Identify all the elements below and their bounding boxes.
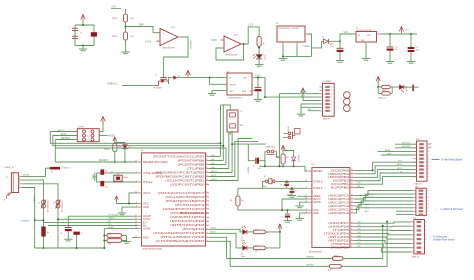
wire divider mid <box>125 22 127 32</box>
net label RESET2 (ICSP) <box>61 138 71 140</box>
svg-text:PWRIN: PWRIN <box>303 46 311 48</box>
filter F2 oval B <box>382 92 391 95</box>
svg-text:1: 1 <box>329 258 330 260</box>
wire PB1 to IOH <box>355 177 417 185</box>
wire +5V to C3 <box>410 34 412 47</box>
svg-text:IO2: IO2 <box>358 239 361 241</box>
svg-text:(PCINT10)PC4: (PCINT10)PC4 <box>175 204 206 207</box>
svg-text:CG0603MLC-05E: CG0603MLC-05E <box>46 201 48 213</box>
net name USBVCC vertical (gate wire) <box>189 40 191 50</box>
wire U3 AVCC <box>129 193 137 204</box>
wire USHIELD <box>21 220 44 222</box>
net label M8RXD <box>307 257 315 259</box>
svg-text:RESET: RESET <box>246 167 248 174</box>
svg-text:LMV358IDGKR: LMV358IDGKR <box>225 54 238 56</box>
svg-text:AD4/SDA: AD4/SDA <box>402 145 411 148</box>
svg-text:5: 5 <box>428 201 429 203</box>
svg-text:1: 1 <box>326 266 327 268</box>
net label GND (IOH) <box>387 153 392 155</box>
svg-text:47u: 47u <box>331 46 334 48</box>
svg-text:XUSB: XUSB <box>23 174 29 176</box>
resonator Y2 <box>80 32 97 36</box>
net label +3V3 (U2 out) <box>255 74 261 77</box>
svg-text:IO0: IO0 <box>358 246 361 248</box>
svg-text:ATMEGA16U2-MU(R): ATMEGA16U2-MU(R) <box>143 248 163 251</box>
wire AD5/SCL to AD <box>355 191 413 196</box>
svg-text:USBVCC: USBVCC <box>189 40 191 50</box>
svg-text:IO7: IO7 <box>358 222 361 224</box>
power +5V symbol (F2) <box>376 77 380 87</box>
node XTAL1-C15 <box>291 187 293 189</box>
wire U5B feedback loop <box>216 44 244 60</box>
IC IC4 ATMEGA328 body <box>309 164 350 253</box>
wire SS to IOH <box>355 173 417 181</box>
svg-text:RN1B: RN1B <box>105 149 111 151</box>
svg-text:Q1: Q1 <box>264 176 266 178</box>
ground (IC4 crystal) <box>288 196 296 198</box>
net label AD1 <box>365 207 370 210</box>
svg-text:USHIELD: USHIELD <box>21 220 31 222</box>
wire RESET2 to U3 <box>55 161 137 163</box>
net label +3V3 (POWER) <box>300 95 306 97</box>
capacitor C16 100n (IC4) <box>281 210 291 218</box>
net label RD+ <box>108 224 113 226</box>
svg-text:XTAL2: XTAL2 <box>143 181 153 184</box>
net label SS (IOH) <box>400 171 403 173</box>
wire C8 to ground <box>67 231 69 239</box>
wire M8RXD to IOL <box>343 226 383 259</box>
svg-text:(INT4/ICP1/CLK0)PC7: (INT4/ICP1/CLK0)PC7 <box>158 192 206 195</box>
wire C16 to ground <box>283 218 291 223</box>
svg-text:C7: C7 <box>296 191 298 193</box>
svg-text:1: 1 <box>426 252 427 254</box>
wire CMP to U5A +input <box>126 27 161 33</box>
svg-text:FDN340P: FDN340P <box>154 88 163 90</box>
svg-text:IO5: IO5 <box>358 229 361 231</box>
net label MISO2 <box>58 130 66 132</box>
svg-text:GND: GND <box>313 212 319 215</box>
resistor R6 1M (xtal) <box>230 196 244 206</box>
svg-text:UGND: UGND <box>33 196 35 202</box>
IC4 left pin stubs and names <box>305 170 323 215</box>
net label AD5/SCL (IOH) <box>402 142 411 145</box>
svg-text:AVCC: AVCC <box>143 192 151 195</box>
wire IO1 to IOL <box>355 244 411 248</box>
capacitor C10 (resonator left upper) <box>69 27 78 30</box>
power +5V symbol (POWER hdr) <box>301 88 305 94</box>
U3 right pins PD0-PD7 <box>153 212 209 243</box>
net label IO7 <box>358 222 361 224</box>
ground (C2) <box>386 62 394 64</box>
AD pin stubs and pads <box>413 190 429 217</box>
svg-text:GND: GND <box>387 153 392 155</box>
node RESET row c <box>293 165 295 167</box>
svg-text:Y2: Y2 <box>80 33 82 35</box>
wire C3 to ground <box>410 52 412 62</box>
svg-text:16: 16 <box>206 167 208 169</box>
wire GND top run <box>381 154 417 156</box>
svg-text:23: 23 <box>351 212 353 214</box>
svg-text:20: 20 <box>305 197 307 199</box>
wire RN1B to RESET2 line <box>114 152 116 163</box>
mounting hole circle 2 <box>344 98 351 105</box>
svg-text:C3: C3 <box>281 217 283 219</box>
wire C5 to RESET node <box>259 161 265 167</box>
net label PB5 (U3) <box>211 163 215 165</box>
svg-text:10: 10 <box>351 232 353 234</box>
svg-text:XTAL2: XTAL2 <box>313 180 323 183</box>
wire UGND row <box>104 227 137 229</box>
wire AD4/SDA to IOH <box>395 147 417 149</box>
svg-text:+5V: +5V <box>405 30 409 32</box>
POWER header pin stubs <box>320 86 332 113</box>
op-amp U5A LMV358 <box>160 27 178 50</box>
capacitor C12 22p (XTAL1) <box>100 169 108 174</box>
svg-text:8: 8 <box>426 222 427 224</box>
wire PB2 turn right <box>235 141 258 176</box>
svg-text:RN4-3: RN4-3 <box>334 255 339 257</box>
svg-text:MISO: MISO <box>397 164 403 166</box>
net label +3V3 (U5A input) <box>145 39 160 43</box>
svg-text:RN4-4: RN4-4 <box>328 270 333 272</box>
ground (RD) <box>122 242 130 244</box>
svg-text:24: 24 <box>351 208 353 210</box>
svg-text:RN4-1: RN4-1 <box>255 246 260 248</box>
net label IO1 <box>358 242 361 244</box>
ground (PC1) <box>336 61 344 63</box>
annotation To Yellow pins of Water Flow sensor <box>429 236 455 242</box>
wire AD3 to AD <box>355 197 413 202</box>
node RESET row a <box>264 165 266 167</box>
wire R6 top to XTAL1 <box>238 188 263 196</box>
net label PWRIN <box>303 46 311 48</box>
svg-text:18: 18 <box>206 159 208 161</box>
svg-text:15: 15 <box>351 183 353 185</box>
wire VIN node to PC1 <box>339 41 341 48</box>
svg-text:M8RXD: M8RXD <box>307 257 315 259</box>
svg-text:(SCLK/PCINT1)PB1: (SCLK/PCINT1)PB1 <box>165 179 205 182</box>
wire ICSP1 pin2 +5V <box>99 122 103 132</box>
svg-text:GND: GND <box>143 206 149 209</box>
wire IO5 to IOL <box>355 229 411 231</box>
svg-text:IO4: IO4 <box>358 232 361 234</box>
U3 left pin stubs and names <box>135 160 168 239</box>
wire jumper to RESET row <box>265 152 280 167</box>
resistor RN4C 1K (M8TXD) <box>326 265 343 272</box>
wire PB4 up to Y1 area <box>228 132 230 169</box>
node +3V3 cap C6 <box>257 77 259 79</box>
svg-text:+3V3: +3V3 <box>145 39 152 43</box>
svg-text:RN1C: RN1C <box>112 18 118 20</box>
svg-text:7: 7 <box>331 107 332 109</box>
svg-text:15: 15 <box>206 171 208 173</box>
crystal Q1 16MHz (IC4) <box>262 176 275 188</box>
svg-text:5: 5 <box>426 235 427 237</box>
svg-text:(OC1A/PCINT8)PC6: (OC1A/PCINT8)PC6 <box>165 196 205 199</box>
net label AD4/SDA <box>365 196 374 199</box>
svg-text:C8: C8 <box>60 233 62 235</box>
wire PB1 turn right <box>238 139 252 181</box>
svg-text:(PDI/MOSI/PCINT2)PB2: (PDI/MOSI/PCINT2)PB2 <box>156 175 206 178</box>
LED L13 yellow <box>253 54 266 60</box>
wire D+ row to U3 <box>48 225 137 227</box>
wire USB VBUS to F1 <box>22 168 50 176</box>
wire U3 XTAL1 <box>104 172 137 174</box>
wire U3 GND <box>122 207 137 213</box>
net label AREF (IC4) <box>287 194 293 197</box>
svg-text:RD2: RD2 <box>108 234 111 236</box>
pushbutton RESET <box>286 127 300 140</box>
svg-text:30: 30 <box>135 221 137 223</box>
LED RX yellow <box>241 242 247 258</box>
svg-text:VIN: VIN <box>344 31 348 34</box>
net label IO9 <box>358 183 361 185</box>
IOH right labels <box>428 144 432 150</box>
pin stub U5A output <box>178 36 181 38</box>
connector POWER header <box>323 81 335 120</box>
svg-text:(PCINT6)PB6: (PCINT6)PB6 <box>178 159 206 162</box>
wire UGND from USB pin4 <box>22 188 35 221</box>
wire U3 PB7 up <box>209 156 221 158</box>
svg-text:LP2985-33DBVR: LP2985-33DBVR <box>228 97 242 99</box>
net label USBVCC (fuse) <box>62 167 72 169</box>
wire +5V rail branch to ON/OFF <box>210 78 226 85</box>
ground (POWER hdr) <box>297 114 305 116</box>
net label SCK2 <box>61 134 68 136</box>
connector IOL <box>412 218 425 259</box>
connector X1 POWERSUPPLY_DC21MMX <box>276 23 305 42</box>
svg-text:(OC0B/INT0)PD0: (OC0B/INT0)PD0 <box>170 212 206 215</box>
svg-text:16MHz: 16MHz <box>123 177 128 179</box>
svg-text:of Water Flow sensor: of Water Flow sensor <box>433 239 455 242</box>
svg-text:2: 2 <box>426 247 427 249</box>
crystal Y2 16MHz (U3) <box>111 172 129 182</box>
svg-text:M8TXD: M8TXD <box>307 264 315 266</box>
wire ICSP1 RESET2 <box>55 139 77 141</box>
connector ICSP1 <box>77 126 99 141</box>
net label MOSI2 (U3) <box>211 179 217 181</box>
wire UVCC row <box>58 218 137 220</box>
svg-text:T1: T1 <box>155 75 157 77</box>
net label SCK (IOH) <box>398 161 403 163</box>
node SCK2 riser <box>222 145 224 147</box>
svg-text:(RXD)PD0: (RXD)PD0 <box>331 246 350 249</box>
svg-text:RESET: RESET <box>287 127 289 132</box>
resistor RN1B 10K <box>105 144 122 152</box>
net label MOSI (IOH) <box>397 168 403 170</box>
svg-text:AD5/SCL: AD5/SCL <box>402 142 411 145</box>
net label CMP <box>138 23 144 27</box>
svg-text:(AIN0/INT1)PD1: (AIN0/INT1)PD1 <box>170 216 206 219</box>
wire F2 loop <box>378 87 392 93</box>
wire MISO to IOH <box>355 166 417 174</box>
IC4 right pins PC group <box>328 194 354 215</box>
capacitor C6 1u <box>249 88 261 93</box>
svg-text:16M: 16M <box>240 125 244 127</box>
wire AGND <box>300 202 308 206</box>
resistor RN4A 1K (RX) <box>247 246 266 253</box>
node C16 <box>287 209 289 211</box>
node UGND bus <box>103 247 105 249</box>
wire T1 drain to +5V rail <box>169 78 226 84</box>
node XTAL2-C14 <box>286 180 288 182</box>
power +5V symbol (RN1B) <box>113 137 117 143</box>
node TXLED +5V <box>279 231 281 233</box>
wire RESET row <box>259 165 305 167</box>
svg-text:IO6: IO6 <box>358 225 361 227</box>
svg-text:C6: C6 <box>249 91 251 93</box>
wire resonator loop <box>75 25 94 46</box>
node M8RXD-IOL <box>382 225 384 227</box>
svg-text:12: 12 <box>206 183 208 185</box>
svg-text:F1: F1 <box>51 172 53 174</box>
svg-text:C9: C9 <box>81 233 83 235</box>
wire PB0 stub <box>355 186 365 188</box>
svg-text:(AIN2/PCINT11)PC2: (AIN2/PCINT11)PC2 <box>163 208 206 211</box>
wire ICSP1 MISO2 <box>50 131 77 133</box>
svg-text:GND: GND <box>229 91 234 93</box>
svg-text:MA07-1R: MA07-1R <box>323 118 331 121</box>
resistor RD+ 22R <box>104 239 121 246</box>
wire MOSI to IOH <box>355 169 417 177</box>
net name RESET vertical text <box>246 167 248 174</box>
ground (U2) <box>208 94 216 96</box>
wire LED13 to ground <box>258 59 260 64</box>
node MISO2 riser <box>220 142 222 144</box>
net label PB4 (U3) <box>211 167 215 169</box>
wire U3 PB1 <box>209 180 238 182</box>
node RESET row b <box>282 165 284 167</box>
wire UCAP row <box>68 215 137 217</box>
pin bar (D3 output) <box>412 85 418 91</box>
svg-text:7: 7 <box>426 226 427 228</box>
wire button to reset net <box>284 134 286 138</box>
svg-text:L13: L13 <box>249 23 254 27</box>
ground (U3 GND) <box>118 213 126 215</box>
svg-text:Y1: Y1 <box>240 111 242 113</box>
filter F2 oval A <box>382 85 391 88</box>
net label MISO (IOH) <box>397 164 403 166</box>
svg-text:31: 31 <box>135 218 137 220</box>
IC4 right pins PB group <box>328 169 354 190</box>
wire ICSP1 pin4 MOSI2 <box>99 135 107 137</box>
net label L13 <box>249 23 254 27</box>
capacitor C14 22p <box>280 181 289 188</box>
svg-text:6: 6 <box>426 230 427 232</box>
svg-text:CMP: CMP <box>138 23 144 27</box>
wire IO4 to IOL <box>355 234 411 235</box>
wire D2 top <box>283 151 294 154</box>
svg-text:27: 27 <box>351 198 353 200</box>
svg-text:10: 10 <box>206 228 208 230</box>
svg-text:+5V: +5V <box>111 5 116 9</box>
svg-text:To Yellow pins: To Yellow pins <box>433 236 448 238</box>
node F2 <box>377 86 379 88</box>
wire TX RX to +5V <box>265 229 280 248</box>
varistor Z1 <box>39 200 49 213</box>
svg-text:VCC: VCC <box>143 202 149 205</box>
svg-text:4: 4 <box>428 204 429 206</box>
capacitor C3 100n <box>408 47 420 52</box>
wire X1 center pin PWRIN <box>308 34 323 48</box>
svg-text:U1: U1 <box>356 27 358 29</box>
svg-text:16: 16 <box>351 179 353 181</box>
transistor T1 FDN340P <box>154 74 169 90</box>
svg-text:4_ADC5 of R4 board: 4_ADC5 of R4 board <box>441 208 464 211</box>
svg-text:UGND: UGND <box>108 227 114 229</box>
wire LED DFU top <box>115 143 125 145</box>
capacitor C9 100n <box>73 232 82 235</box>
wire MOSI2 long run <box>55 148 226 165</box>
pin stub U2 <box>226 78 255 91</box>
wire RESET net from POWER down <box>278 94 280 167</box>
IOL pin stubs and pads <box>411 221 427 254</box>
svg-text:17: 17 <box>206 163 208 165</box>
svg-text:(ADC0)PC0: (ADC0)PC0 <box>328 212 350 215</box>
net label USBVCC (T1 source) <box>107 81 155 85</box>
svg-text:12: 12 <box>206 236 208 238</box>
wire U2 OUT +3V3 <box>255 78 321 98</box>
svg-text:RESET2: RESET2 <box>99 160 109 162</box>
node X1 ground bus <box>282 55 284 57</box>
annotation To 4th Relay Board <box>432 159 463 162</box>
wire U3 PAD stub <box>132 237 137 239</box>
mounting hole circle 1 <box>344 92 351 99</box>
resistor RD- 22R <box>104 234 121 238</box>
svg-text:R6: R6 <box>230 200 232 202</box>
capacitor C11 (resonator left lower) <box>72 36 78 38</box>
net label TXLED <box>210 228 217 230</box>
node +5V rail to LP2985 <box>209 77 211 79</box>
wire USHIELD down to ground bus <box>34 220 36 248</box>
svg-text:RD3: RD3 <box>108 243 111 245</box>
net label MISO2 (U3) <box>211 171 217 173</box>
svg-text:UGND: UGND <box>143 228 151 231</box>
svg-text:(PDO/MISO/PCINT3)PB3: (PDO/MISO/PCINT3)PB3 <box>156 171 206 174</box>
resistor RN1D 10K <box>112 32 134 40</box>
svg-text:22: 22 <box>305 201 307 203</box>
net label RESET (POWER) <box>300 92 308 94</box>
svg-text:4: 4 <box>426 239 427 241</box>
wire U3 VCC row <box>117 203 138 205</box>
diode D3 schottky <box>399 85 406 93</box>
node VIN <box>339 40 341 42</box>
power +5V symbol (rail after T1) <box>186 70 191 77</box>
svg-text:ON/OFF: ON/OFF <box>229 84 237 86</box>
svg-text:4: 4 <box>331 97 332 99</box>
wire U3 XTAL2 <box>104 181 137 183</box>
svg-text:27: 27 <box>135 215 137 217</box>
svg-text:C5: C5 <box>253 166 255 168</box>
svg-text:AREF: AREF <box>287 194 293 197</box>
wire C9 to bus <box>76 235 78 248</box>
wire AREF top run <box>378 150 417 152</box>
wire PC1 to ground <box>339 52 341 61</box>
wire IO6 to IOL <box>355 225 411 227</box>
wire U3 PB2 <box>209 176 235 178</box>
wire Z1 column to bus <box>43 222 45 248</box>
connector IOH <box>415 139 428 185</box>
svg-text:C4: C4 <box>280 185 282 187</box>
wire +3V3 to C6 <box>257 78 259 88</box>
diode CD1206 (reset) <box>122 145 130 149</box>
wire M8TXD to IOL <box>341 222 387 267</box>
wire C6 to ground <box>257 91 259 99</box>
svg-text:2: 2 <box>331 90 332 92</box>
svg-text:5: 5 <box>331 100 332 102</box>
svg-text:←: ← <box>434 208 437 211</box>
wire U3 PB5 up <box>209 164 226 166</box>
